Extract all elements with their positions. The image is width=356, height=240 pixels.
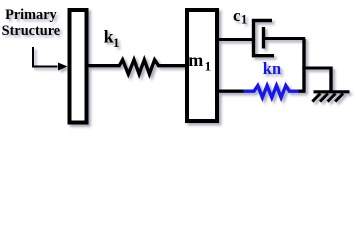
svg-text:Structure: Structure <box>2 23 61 39</box>
svg-text:1: 1 <box>241 12 247 26</box>
svg-text:kn: kn <box>263 59 281 78</box>
svg-text:m: m <box>188 50 203 70</box>
svg-text:Primary: Primary <box>5 7 57 23</box>
svg-text:1: 1 <box>205 59 212 74</box>
svg-text:c: c <box>233 6 241 25</box>
svg-text:1: 1 <box>113 35 120 50</box>
